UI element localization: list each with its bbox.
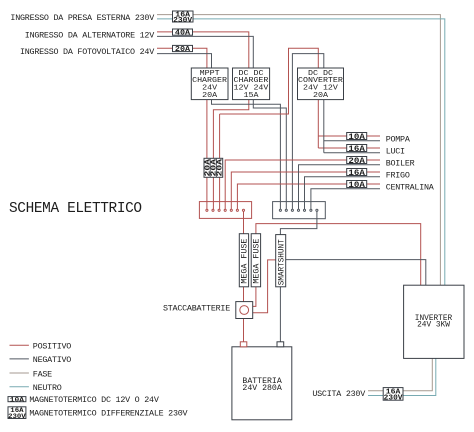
svg-text:POSITIVO: POSITIVO: [33, 342, 72, 352]
svg-text:POMPA: POMPA: [386, 135, 411, 145]
svg-text:NEUTRO: NEUTRO: [33, 383, 62, 393]
svg-text:24V 3KW: 24V 3KW: [417, 321, 450, 330]
svg-text:SMARTSHUNT: SMARTSHUNT: [277, 239, 286, 285]
svg-text:24V 280A: 24V 280A: [242, 384, 281, 393]
svg-text:SCHEMA ELETTRICO: SCHEMA ELETTRICO: [9, 201, 142, 217]
svg-text:230V: 230V: [384, 394, 404, 402]
svg-text:230V: 230V: [8, 413, 26, 420]
svg-text:INGRESSO DA PRESA ESTERNA 230V: INGRESSO DA PRESA ESTERNA 230V: [10, 13, 154, 23]
svg-text:LUCI: LUCI: [386, 147, 405, 157]
svg-text:INGRESSO DA ALTERNATORE 12V: INGRESSO DA ALTERNATORE 12V: [25, 31, 154, 41]
svg-text:40A: 40A: [175, 30, 191, 38]
svg-text:20A: 20A: [313, 92, 328, 100]
svg-text:15A: 15A: [244, 92, 259, 100]
svg-text:20A: 20A: [217, 158, 225, 176]
svg-text:MEGA FUSE: MEGA FUSE: [253, 238, 262, 283]
svg-text:10A: 10A: [10, 396, 25, 403]
svg-text:16A: 16A: [348, 170, 365, 178]
svg-text:20A: 20A: [202, 92, 217, 100]
svg-text:230V: 230V: [173, 17, 193, 25]
svg-text:STACCABATTERIE: STACCABATTERIE: [163, 303, 230, 313]
svg-text:FRIGO: FRIGO: [386, 171, 410, 181]
svg-text:20A: 20A: [348, 158, 365, 166]
svg-text:BOILER: BOILER: [386, 159, 415, 169]
svg-text:MAGNETOTERMICO DIFFERENZIALE 2: MAGNETOTERMICO DIFFERENZIALE 230V: [29, 409, 187, 419]
svg-text:INGRESSO DA FOTOVOLTAICO 24V: INGRESSO DA FOTOVOLTAICO 24V: [20, 47, 154, 57]
svg-text:MAGNETOTERMICO DC 12V O 24V: MAGNETOTERMICO DC 12V O 24V: [29, 395, 158, 405]
svg-text:20A: 20A: [175, 46, 191, 54]
svg-text:NEGATIVO: NEGATIVO: [33, 355, 72, 365]
svg-text:10A: 10A: [348, 182, 365, 190]
svg-text:FASE: FASE: [33, 369, 52, 379]
svg-text:10A: 10A: [348, 134, 365, 142]
svg-text:16A: 16A: [348, 146, 365, 154]
svg-text:CENTRALINA: CENTRALINA: [386, 183, 435, 193]
svg-text:MEGA FUSE: MEGA FUSE: [241, 238, 250, 283]
svg-text:USCITA 230V: USCITA 230V: [312, 389, 365, 399]
